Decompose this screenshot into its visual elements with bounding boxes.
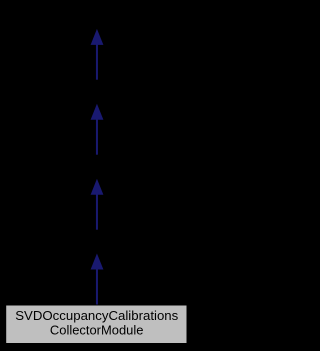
node box SVDOccupancyCalibrationsCollectorModule (highlighted current class)	[6, 305, 187, 344]
inheritance arrow 3	[91, 179, 104, 230]
inheritance arrow 2	[91, 104, 104, 155]
inheritance arrow 4 (into highlighted node)	[91, 254, 104, 305]
inheritance arrow 1 (top, to invisible base box)	[91, 29, 104, 80]
svg-text:SVDOccupancyCalibrations: SVDOccupancyCalibrations	[15, 309, 178, 323]
svg-text:CollectorModule: CollectorModule	[50, 323, 144, 337]
